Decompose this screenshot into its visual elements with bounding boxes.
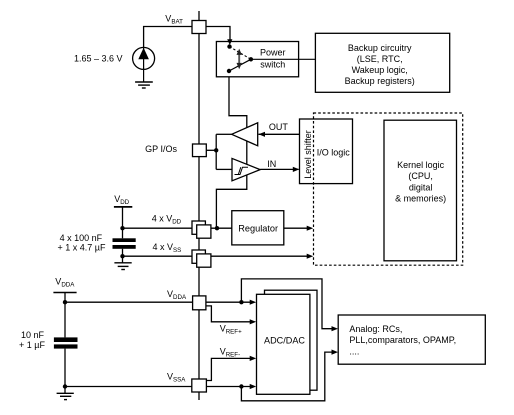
wire VSSA pin to ADC bbox=[206, 386, 250, 388]
svg-text:....: .... bbox=[349, 346, 359, 356]
wire IN from schmitt to level shifter bbox=[260, 168, 298, 170]
wire OUT from level shifter to buffer bbox=[259, 133, 300, 135]
schmitt trigger IN bbox=[232, 158, 260, 180]
svg-text:OUT: OUT bbox=[269, 122, 289, 132]
pin GP I/Os bbox=[193, 144, 207, 157]
svg-text:4 x 100 nF: 4 x 100 nF bbox=[60, 233, 103, 243]
arrow IN into level shifter bbox=[293, 167, 300, 172]
node VDDA cap top bbox=[63, 300, 67, 304]
pin VBAT bbox=[192, 21, 206, 34]
svg-text:Backup circuitry: Backup circuitry bbox=[348, 43, 412, 53]
arrow VREF- into ADC bbox=[250, 356, 257, 361]
wire VDDA over top to analog block bbox=[241, 279, 332, 329]
current source 1.65-3.6 V bbox=[133, 47, 155, 69]
svg-text:switch: switch bbox=[260, 59, 285, 69]
wire chip boundary vertical line bbox=[198, 11, 200, 400]
svg-text:1.65 – 3.6 V: 1.65 – 3.6 V bbox=[74, 53, 123, 63]
pin 4xVSS (stacked) bbox=[192, 250, 211, 267]
node VDD cap bottom bbox=[120, 254, 124, 258]
arrow OUT into buffer bbox=[259, 132, 266, 137]
svg-text:+ 1 µF: + 1 µF bbox=[19, 340, 45, 350]
wire VDDA rail down to cap and ground bbox=[64, 293, 66, 338]
wire VBAT rail from source to pin bbox=[144, 27, 192, 48]
wire VDDA pin to ADC bbox=[206, 301, 251, 303]
wire VREF+ bbox=[206, 306, 251, 322]
VDD rail symbol bbox=[114, 206, 132, 208]
arrow 4xVSS into kernel domain bbox=[307, 254, 314, 259]
svg-text:Regulator: Regulator bbox=[238, 224, 278, 234]
wire VSSA under bottom to analog block bbox=[241, 352, 332, 401]
wire VDDA to pin bbox=[65, 301, 193, 303]
node VDD cap top bbox=[120, 226, 124, 230]
svg-text:& memories): & memories) bbox=[395, 194, 446, 204]
arrow VSSA into analog block bbox=[332, 350, 339, 355]
arrowheads bbox=[250, 132, 338, 389]
node VDDA ADC junction bbox=[239, 300, 243, 304]
regulator block bbox=[232, 211, 284, 245]
node VDDA cap bottom bbox=[63, 384, 67, 388]
wire regulator output to kernel bbox=[284, 227, 308, 229]
wire power switch common to backup (over box) bbox=[251, 58, 316, 60]
ground (battery) bbox=[135, 82, 153, 88]
power switch box bbox=[216, 42, 298, 77]
ground (VDD cap) bbox=[114, 263, 131, 270]
node switch common contact bbox=[249, 57, 253, 61]
wire VDD rail down bbox=[122, 207, 124, 239]
wire power switch bottom to VDD node bbox=[216, 71, 246, 228]
pin VSSA bbox=[192, 379, 207, 392]
switch actuator double arrow bbox=[237, 49, 242, 70]
buffer OUT (to pad) bbox=[232, 123, 258, 146]
capacitor VDDA decoupling bbox=[54, 337, 78, 348]
wire VBAT pin to power switch bbox=[206, 27, 230, 45]
arrow VREF+ into ADC bbox=[250, 319, 257, 324]
wire 4xVDD to regulator bbox=[123, 227, 232, 229]
arrow into power switch top bbox=[227, 39, 232, 45]
arrow VDDA into ADC bbox=[250, 300, 257, 305]
ADC/DAC stacked block (back) bbox=[265, 290, 318, 390]
svg-text:Backup registers): Backup registers) bbox=[345, 76, 415, 86]
pin VDDA bbox=[193, 296, 206, 310]
node VSSA ADC junction bbox=[239, 384, 243, 388]
node switch VBAT contact bbox=[227, 44, 231, 48]
wire VREF- bbox=[206, 358, 250, 380]
wire current source to ground bbox=[143, 69, 145, 82]
svg-text:Kernel logic: Kernel logic bbox=[397, 160, 445, 170]
pin 4xVDD (stacked) bbox=[192, 221, 211, 238]
backup circuitry block bbox=[315, 33, 449, 92]
wire VDD cap bottom to ground bbox=[122, 249, 124, 263]
node GPIO bus junction bbox=[214, 148, 218, 152]
kernel logic block bbox=[384, 120, 457, 261]
ground (VDDA cap) bbox=[57, 393, 74, 399]
node VDD regulator branch bbox=[215, 226, 219, 230]
switch dashed throw (VBAT position) bbox=[230, 47, 251, 60]
svg-text:ADC/DAC: ADC/DAC bbox=[264, 335, 305, 345]
svg-text:I/O logic: I/O logic bbox=[317, 148, 351, 158]
svg-text:PLL,comparators, OPAMP,: PLL,comparators, OPAMP, bbox=[349, 335, 456, 345]
svg-text:+ 1 x 4.7 µF: + 1 x 4.7 µF bbox=[58, 243, 106, 253]
wire GPIO pin to buffer bus bbox=[206, 149, 216, 151]
wire bus to schmitt input bbox=[216, 168, 232, 170]
svg-text:Analog: RCs,: Analog: RCs, bbox=[349, 324, 402, 334]
analog peripherals block bbox=[338, 315, 485, 364]
capacitor VDD decoupling bbox=[113, 238, 136, 249]
switch lever (VDD position) bbox=[229, 59, 251, 71]
svg-text:Level shifter: Level shifter bbox=[303, 130, 313, 179]
I/O logic box with level shifter bbox=[300, 119, 353, 184]
wire VDDA cap bottom to ground bbox=[64, 349, 66, 394]
svg-text:(CPU,: (CPU, bbox=[408, 171, 433, 181]
kernel logic dashed domain box bbox=[314, 113, 463, 265]
svg-text:digital: digital bbox=[409, 182, 433, 192]
node switch VDD contact bbox=[227, 69, 231, 73]
wire 4xVSS to kernel bbox=[123, 255, 308, 257]
arrow regulator into kernel domain bbox=[307, 226, 314, 231]
svg-text:IN: IN bbox=[267, 159, 276, 169]
svg-text:GP I/Os: GP I/Os bbox=[145, 144, 177, 154]
svg-text:Wakeup logic,: Wakeup logic, bbox=[352, 65, 408, 75]
VDDA rail symbol bbox=[53, 292, 76, 294]
wire VSSA to pin bbox=[65, 386, 192, 388]
svg-text:Power: Power bbox=[260, 47, 286, 57]
schmitt hysteresis glyph bbox=[235, 167, 249, 174]
wire buffer bus vertical bbox=[215, 134, 217, 169]
arrow VSSA into ADC bbox=[250, 384, 257, 389]
arrow VDDA into analog block bbox=[332, 326, 339, 331]
svg-text:(LSE, RTC,: (LSE, RTC, bbox=[357, 54, 403, 64]
wire bus to OUT buffer output bbox=[216, 133, 231, 135]
svg-text:10 nF: 10 nF bbox=[21, 330, 45, 340]
ADC/DAC stacked block (front) bbox=[257, 294, 310, 394]
